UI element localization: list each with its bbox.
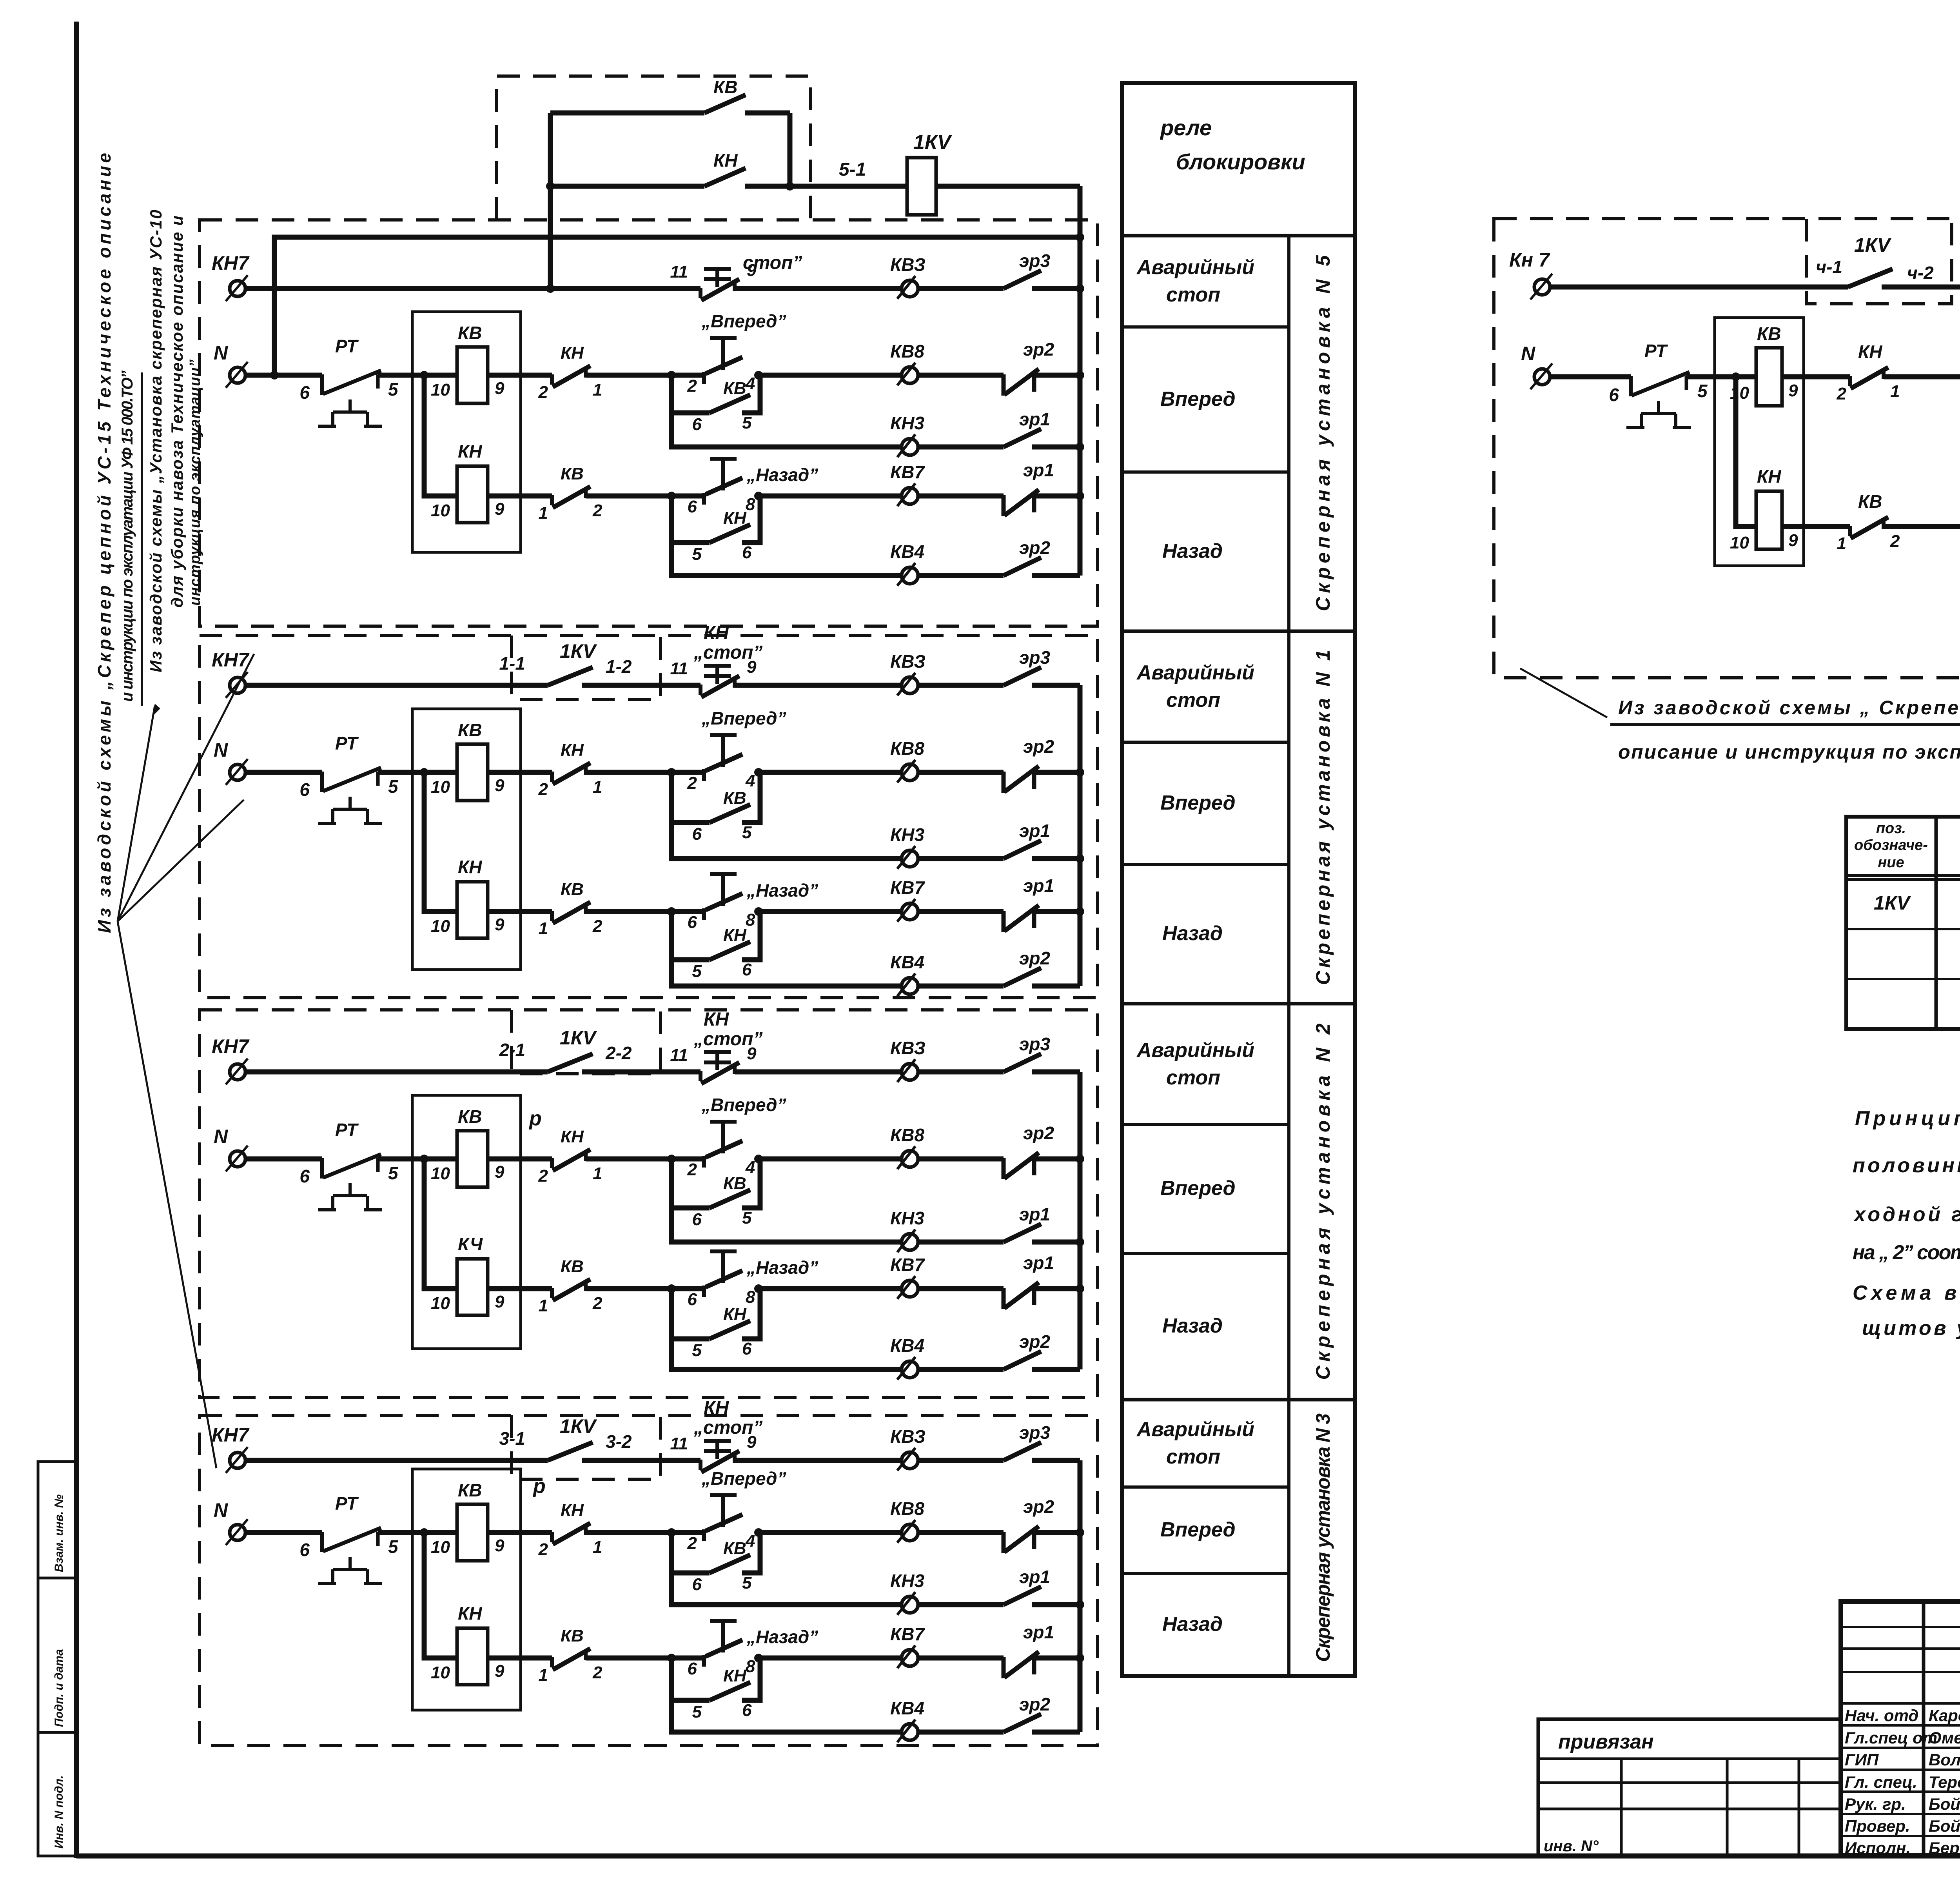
unit N5: contact КН (interlock)	[550, 184, 704, 189]
svg-text:реле: реле	[1160, 115, 1212, 140]
svg-text:Инв. N подл.: Инв. N подл.	[53, 1775, 65, 1849]
svg-text:9: 9	[495, 915, 505, 934]
unit N2: terminal КН7	[212, 1035, 250, 1084]
unit N4: thermal contact РТ	[1626, 372, 1691, 428]
unit N3: thermal contact РТ	[318, 1528, 382, 1583]
unit N1: contact 1KV with wires 1-1/1-2	[245, 683, 548, 688]
svg-text:9: 9	[747, 1044, 757, 1063]
svg-text:3-2: 3-2	[606, 1431, 632, 1452]
svg-text:КН: КН	[704, 1009, 730, 1030]
svg-text:Кн 7: Кн 7	[1509, 249, 1550, 271]
svg-text:КВ4: КВ4	[890, 952, 924, 972]
svg-text:РТ: РТ	[1644, 341, 1668, 361]
svg-text:КВ4: КВ4	[890, 541, 924, 562]
unit N1: self-hold contact КН (Назад)	[671, 912, 710, 960]
unit N1: stop push-button	[704, 666, 731, 684]
svg-text:половины переходной галере: половины переходной галереи . Для другой…	[1853, 1154, 1960, 1177]
unit N5: stop push-button	[704, 269, 731, 287]
unit N3: contact КН (row Вперед)	[552, 1523, 590, 1544]
unit N3: wire relay box branch	[424, 1533, 457, 1658]
svg-text:КВ8: КВ8	[890, 1125, 924, 1145]
unit N3: wire to Назад button	[586, 1656, 704, 1661]
unit N3: contact ЭР1 (row Назад)	[1004, 1652, 1039, 1678]
unit N5: contact ЭР3	[1004, 271, 1041, 289]
svg-text:КН3: КН3	[890, 1571, 924, 1591]
unit N2: wire РТ to relay box	[378, 1157, 457, 1162]
unit N1: wire to Назад button	[586, 909, 704, 914]
unit N1: dashed enclosure	[200, 636, 1098, 998]
unit N1: connector КН3	[897, 846, 918, 869]
svg-text:КВ4: КВ4	[890, 1335, 924, 1356]
svg-text:эр1: эр1	[1019, 821, 1050, 841]
svg-text:6: 6	[299, 779, 310, 800]
unit N1: coil КН	[457, 882, 488, 938]
svg-text:„Вперед”: „Вперед”	[701, 708, 786, 728]
svg-text:2: 2	[687, 1534, 697, 1553]
svg-text:6: 6	[692, 1210, 702, 1229]
svg-text:5: 5	[388, 776, 399, 797]
unit N3: self-hold contact КВ	[671, 1533, 710, 1573]
svg-text:4: 4	[745, 374, 755, 393]
svg-text:Гл.спец от: Гл.спец от	[1845, 1729, 1937, 1747]
unit N3: dashed box around 1KV contact	[512, 1415, 661, 1479]
svg-text:КВ8: КВ8	[890, 341, 924, 361]
svg-text:9: 9	[495, 499, 505, 519]
svg-text:2: 2	[538, 1166, 548, 1186]
unit N2: relay box outline	[412, 1095, 521, 1349]
svg-text:1: 1	[1837, 534, 1846, 553]
svg-text:Бойчук: Бойчук	[1929, 1795, 1960, 1813]
svg-text:5-1: 5-1	[839, 159, 866, 180]
unit N3: dashed enclosure	[200, 1415, 1098, 1745]
unit N2: coil КЧ	[457, 1259, 488, 1315]
svg-text:эр3: эр3	[1019, 1422, 1050, 1443]
unit N3: wire coil to contact КВ	[488, 1656, 552, 1661]
svg-text:Бойчук: Бойчук	[1929, 1817, 1960, 1835]
svg-text:РТ: РТ	[335, 1120, 359, 1140]
unit N3: coil КВ	[457, 1504, 488, 1561]
title block signature stack verticals	[1922, 1602, 1926, 1856]
svg-text:стоп: стоп	[1166, 1445, 1220, 1468]
legend section 3 dividers	[1122, 1398, 1355, 1402]
svg-text:N: N	[214, 1126, 228, 1148]
svg-text:„Назад”: „Назад”	[746, 1627, 818, 1647]
svg-text:КН: КН	[561, 1501, 584, 1520]
unit N4: wire N row	[1550, 374, 1631, 380]
svg-text:КВ7: КВ7	[890, 1624, 925, 1644]
unit N1: self-hold contact КВ	[671, 772, 710, 823]
svg-text:Володина: Володина	[1929, 1750, 1960, 1769]
svg-text:2: 2	[687, 1160, 697, 1179]
svg-text:Омельченко: Омельченко	[1929, 1729, 1960, 1747]
svg-text:стоп: стоп	[1166, 283, 1220, 306]
unit N3: contact ЭР2 (row КВ4)	[1004, 1714, 1041, 1732]
unit N3: wire row КН3	[671, 1573, 901, 1605]
unit N1: contact ЭР2 (row КВ4)	[1004, 968, 1041, 986]
svg-text:КН: КН	[1757, 466, 1781, 487]
svg-text:и инструкции по эксплуатации У: и инструкции по эксплуатации УФ 15 000.Т…	[119, 370, 136, 702]
svg-text:КВ8: КВ8	[890, 1498, 924, 1519]
svg-text:эр2: эр2	[1019, 948, 1050, 968]
svg-text:6: 6	[299, 1166, 310, 1186]
unit N2: push-button Назад	[710, 1251, 737, 1283]
svg-text:1: 1	[539, 1296, 548, 1315]
legend section 2 dividers	[1122, 1002, 1355, 1006]
svg-text:N: N	[214, 342, 228, 364]
unit N5: dashed enclosure	[200, 220, 1098, 626]
svg-text:2: 2	[592, 917, 603, 936]
svg-text:ГИП: ГИП	[1845, 1750, 1879, 1769]
unit N5: wire top return	[274, 186, 1080, 375]
title block name row lines	[1841, 1702, 1960, 1705]
svg-text:КВ4: КВ4	[890, 1698, 924, 1718]
svg-text:Аварийный: Аварийный	[1136, 1039, 1254, 1062]
unit N2: connector КВ8	[897, 1146, 918, 1169]
unit N1: terminal N	[214, 739, 248, 785]
svg-text:9: 9	[1788, 531, 1798, 550]
svg-text:5: 5	[1697, 381, 1708, 401]
svg-text:КН3: КН3	[890, 413, 924, 433]
unit N2: coil КВ	[457, 1131, 488, 1187]
unit N1: connector КВ8	[897, 760, 918, 783]
unit N1: wire РТ to relay box	[378, 770, 457, 775]
svg-text:КВ: КВ	[561, 880, 584, 899]
svg-text:6: 6	[688, 913, 697, 932]
unit N5: connector КН3	[897, 434, 918, 457]
svg-text:КВ: КВ	[723, 379, 746, 398]
svg-text:Из заводской схемы „Скрепер це: Из заводской схемы „Скрепер цепной УС-15…	[94, 153, 114, 933]
svg-text:р: р	[532, 1475, 546, 1498]
svg-text:щитов управления ШУ скреп: щитов управления ШУ скреперами УС-10, УС…	[1862, 1317, 1960, 1340]
svg-text:9: 9	[495, 1162, 505, 1182]
svg-text:КН: КН	[713, 150, 738, 171]
unit N2: thermal contact РТ	[318, 1154, 382, 1210]
unit N2: stop push-button	[704, 1052, 731, 1070]
svg-text:Назад: Назад	[1162, 1315, 1223, 1337]
unit N1: dashed box around 1KV contact	[512, 636, 661, 699]
svg-text:Вперед: Вперед	[1160, 1518, 1236, 1541]
svg-text:1: 1	[539, 503, 548, 523]
unit N5: wire 5-1	[790, 184, 907, 189]
unit N2: wire button to КВ7	[759, 1286, 901, 1291]
svg-text:Аварийный: Аварийный	[1136, 661, 1254, 684]
unit N1: push-button Назад	[710, 874, 737, 906]
unit N4: wire РТ to relay box	[1686, 374, 1756, 380]
svg-text:1КV: 1КV	[1854, 234, 1892, 256]
svg-text:Рук. гр.: Рук. гр.	[1845, 1795, 1906, 1813]
svg-text:1: 1	[539, 1665, 548, 1685]
unit N5: connector КВ8	[897, 363, 918, 385]
svg-text:9: 9	[747, 657, 757, 677]
unit N4: contact КВ (row Назад)	[1782, 524, 1850, 529]
svg-text:10: 10	[431, 777, 450, 797]
binding table frame	[1538, 1719, 1841, 1856]
unit N1: contact ЭР2 (row Вперед)	[1004, 766, 1039, 793]
svg-text:КН: КН	[561, 741, 584, 760]
svg-text:КН: КН	[458, 441, 482, 461]
svg-text:РТ: РТ	[335, 1493, 359, 1514]
svg-text:1КV: 1КV	[560, 1027, 597, 1049]
unit N4: dashed enclosure	[1494, 219, 1960, 678]
svg-text:привязан: привязан	[1558, 1730, 1654, 1753]
unit N3: wire coil КВ to contact КН	[488, 1530, 552, 1535]
unit N5: thermal contact РТ	[318, 370, 382, 426]
unit N1: connector КВЗ	[897, 673, 918, 695]
svg-text:3-1: 3-1	[499, 1428, 525, 1449]
svg-text:КН7: КН7	[212, 649, 250, 671]
leader line to unit 3 block	[118, 921, 216, 1468]
svg-text:5: 5	[742, 1208, 752, 1228]
svg-text:Кардонский: Кардонский	[1929, 1706, 1960, 1725]
svg-text:КВ: КВ	[561, 1626, 584, 1645]
svg-text:КВ: КВ	[723, 1174, 746, 1193]
svg-text:эр1: эр1	[1019, 1204, 1050, 1224]
svg-text:10: 10	[431, 501, 450, 520]
unit N3: contact ЭР1 (row КН3)	[1004, 1587, 1041, 1605]
svg-text:5: 5	[388, 1163, 399, 1183]
svg-text:8: 8	[746, 1287, 755, 1307]
legend table frame	[1122, 83, 1355, 1676]
unit N3: wire РТ to relay box	[378, 1530, 457, 1535]
svg-text:стоп: стоп	[1166, 1066, 1220, 1089]
svg-text:Назад: Назад	[1162, 540, 1223, 563]
unit N4: coil КВ	[1756, 348, 1782, 406]
svg-text:эр1: эр1	[1023, 1622, 1054, 1642]
unit N5: wire N row	[245, 373, 322, 378]
unit N2: wire N row	[245, 1157, 322, 1162]
unit N1: contact ЭР3	[1004, 667, 1041, 685]
svg-text:10: 10	[1730, 533, 1749, 552]
unit N3: wire N row	[245, 1530, 322, 1535]
svg-text:КВ: КВ	[561, 464, 584, 483]
svg-text:КВ: КВ	[458, 323, 482, 343]
legend header cell реле блокировки	[1122, 234, 1355, 238]
binding table row lines	[1538, 1758, 1841, 1760]
unit N2: self-hold contact КВ	[671, 1159, 710, 1208]
svg-text:6: 6	[742, 960, 752, 979]
legend inner vertical	[1289, 234, 1355, 237]
svg-text:КВЗ: КВЗ	[890, 1038, 926, 1058]
unit N1: wire button to КВ8	[759, 770, 901, 775]
svg-text:2: 2	[538, 780, 548, 799]
unit N5: external interlock dashed box	[497, 76, 810, 220]
unit N2: wire coil to contact КВ	[488, 1286, 552, 1291]
svg-text:РТ: РТ	[335, 336, 359, 356]
unit N1: relay box outline	[412, 709, 521, 970]
svg-text:КВ: КВ	[723, 1539, 746, 1558]
unit N1: contact ЭР1 (row Назад)	[1004, 905, 1039, 932]
svg-text:Терещенко: Терещенко	[1929, 1773, 1960, 1791]
svg-text:2: 2	[592, 501, 603, 520]
svg-text:эр2: эр2	[1023, 1123, 1054, 1143]
unit N2: contact ЭР1 (row КН3)	[1004, 1224, 1041, 1242]
leader line to unit 1 block	[118, 654, 254, 921]
unit N2: wire row КВ4	[671, 1339, 901, 1369]
unit N3: connector КВ8	[897, 1520, 918, 1543]
svg-text:РТ: РТ	[335, 733, 359, 754]
unit N5: push-button Назад	[710, 459, 737, 490]
svg-text:ходной галереи схема ан: ходной галереи схема аналогична с замено…	[1853, 1203, 1960, 1226]
svg-text:Вперед: Вперед	[1160, 388, 1236, 410]
unit N4: relay box branch wire	[1736, 377, 1756, 527]
svg-text:2: 2	[592, 1663, 603, 1682]
unit N1: contact КВ (row Назад)	[552, 902, 590, 923]
svg-text:обозначе-: обозначе-	[1854, 837, 1928, 853]
unit N3: contact 1KV with wires 3-1/3-2	[245, 1458, 548, 1463]
unit N2: dashed box around 1KV contact	[512, 1010, 661, 1074]
unit N2: self-hold contact КН (Назад)	[671, 1289, 710, 1339]
svg-text:10: 10	[431, 380, 450, 399]
unit N3: connector КВЗ	[897, 1448, 918, 1471]
svg-text:4: 4	[745, 1158, 755, 1177]
unit N3: connector КВ4	[897, 1720, 918, 1742]
leader line to unit 1 relay box	[118, 800, 244, 921]
svg-text:6: 6	[742, 1339, 752, 1358]
svg-text:КН: КН	[458, 857, 482, 877]
svg-text:КВЗ: КВЗ	[890, 651, 926, 672]
svg-text:Из заводской схемы „ Скр: Из заводской схемы „ Скрепер цепной УС-1…	[1618, 697, 1960, 719]
svg-text:N: N	[1521, 343, 1535, 365]
legend section 5 dividers	[1122, 234, 1355, 238]
svg-text:„Назад”: „Назад”	[746, 465, 818, 485]
svg-text:11: 11	[670, 262, 688, 281]
unit N1: wire relay box branch	[424, 772, 457, 912]
unit N5: wire coil КВ to contact КН	[488, 373, 552, 378]
unit N1: connector КВ4	[897, 973, 918, 996]
svg-text:Из заводской схемы „Установка: Из заводской схемы „Установка скреперная…	[147, 210, 165, 672]
svg-text:„Вперед”: „Вперед”	[701, 1468, 786, 1489]
svg-text:КВ7: КВ7	[890, 462, 925, 482]
unit N2: connector КН3	[897, 1229, 918, 1252]
svg-text:КН: КН	[723, 1666, 747, 1685]
svg-text:КЧ: КЧ	[458, 1234, 483, 1254]
unit N5: coil КВ	[457, 347, 488, 403]
unit N2: contact ЭР1 (row Назад)	[1004, 1282, 1039, 1309]
parts table frame	[1846, 817, 1960, 1029]
unit N1: wire N row	[245, 770, 322, 775]
unit N2: wire relay box branch	[424, 1159, 457, 1289]
svg-text:2: 2	[1890, 532, 1900, 551]
svg-text:1-1: 1-1	[499, 653, 525, 674]
parts table header underline (double)	[1846, 874, 1960, 877]
drawing frame bottom border	[76, 1854, 1960, 1859]
unit N5: wire РТ to relay box	[378, 373, 457, 378]
svg-text:КН: КН	[704, 1398, 730, 1418]
svg-text:КН7: КН7	[212, 1424, 250, 1446]
unit N2: wire button to КВ8	[759, 1157, 901, 1162]
svg-text:ч-2: ч-2	[1907, 263, 1934, 283]
svg-text:КН: КН	[561, 1127, 584, 1146]
svg-text:5: 5	[388, 1536, 399, 1557]
svg-text:8: 8	[746, 495, 755, 514]
unit N5: self-hold contact КВ	[671, 375, 710, 413]
unit N2: contact ЭР3	[1004, 1054, 1041, 1072]
svg-text:Вперед: Вперед	[1160, 1177, 1236, 1200]
caption underline	[1610, 723, 1960, 726]
unit N3: contact ЭР2 (row Вперед)	[1004, 1526, 1039, 1553]
title block blank row lines	[1841, 1626, 1960, 1628]
svg-text:эр2: эр2	[1019, 537, 1050, 558]
svg-text:КН: КН	[561, 343, 584, 363]
svg-text:5: 5	[692, 1341, 702, 1360]
svg-text:9: 9	[495, 1536, 505, 1555]
svg-text:9: 9	[495, 776, 505, 795]
svg-text:4: 4	[745, 771, 755, 790]
svg-text:10: 10	[431, 1164, 450, 1183]
unit N3: stop push-button	[704, 1441, 731, 1459]
unit N5: wire row КН3	[671, 413, 901, 447]
unit N1: wire button to КВ7	[759, 909, 901, 914]
svg-text:Назад: Назад	[1162, 1613, 1223, 1636]
unit N5: wire interlock right leg	[788, 113, 793, 186]
unit N1: wire coil КВ to contact КН	[488, 770, 552, 775]
unit N1: contact ЭР1 (row КН3)	[1004, 841, 1041, 859]
unit N5: self-hold contact КН (Назад)	[671, 496, 710, 543]
svg-text:1КV: 1КV	[560, 1415, 597, 1437]
unit N5: connector КВ7	[897, 483, 918, 506]
svg-text:КВ: КВ	[1858, 491, 1882, 512]
unit N2: right bus wire	[1078, 1072, 1083, 1369]
unit N1: thermal contact РТ	[318, 768, 382, 823]
svg-text:КВ: КВ	[458, 1480, 482, 1500]
unit N5: wire to Назад button	[586, 494, 704, 499]
unit N5: contact КВ (row Назад)	[552, 487, 590, 508]
unit N5: right bus wire	[1078, 186, 1083, 576]
svg-text:КВ: КВ	[1757, 323, 1781, 344]
svg-text:5: 5	[742, 1573, 752, 1592]
svg-text:КН: КН	[723, 1305, 747, 1324]
unit N4: wire to Вперед button	[1884, 374, 1960, 380]
unit N3: connector КН3	[897, 1592, 918, 1615]
svg-text:10: 10	[431, 917, 450, 936]
svg-text:эр1: эр1	[1023, 875, 1054, 896]
unit N3: wire button to КВ7	[759, 1656, 901, 1661]
unit N3: contact ЭР3	[1004, 1442, 1041, 1460]
svg-text:N: N	[214, 739, 228, 761]
svg-text:6: 6	[688, 1659, 697, 1678]
svg-text:10: 10	[1730, 383, 1749, 403]
svg-text:10: 10	[431, 1538, 450, 1557]
svg-text:КН: КН	[1858, 341, 1882, 362]
unit N5: relay box outline	[412, 312, 521, 552]
unit N2: contact ЭР2 (row Вперед)	[1004, 1153, 1039, 1179]
svg-text:6: 6	[688, 497, 697, 516]
unit N3: wire row КВ4	[671, 1700, 901, 1732]
unit N4: terminal N	[1521, 343, 1552, 389]
unit N1: push-button Вперед	[710, 735, 737, 767]
unit N3: self-hold contact КН (Назад)	[671, 1658, 710, 1700]
svg-text:эр3: эр3	[1019, 251, 1050, 271]
svg-text:блокировки: блокировки	[1176, 149, 1305, 174]
parts table column поз.обозначение	[1935, 817, 1938, 1029]
svg-text:Назад: Назад	[1162, 922, 1223, 945]
unit N5: wire relay box branch	[424, 375, 457, 496]
unit N5: wire interlock left leg	[548, 113, 553, 289]
legend section 1 dividers	[1122, 630, 1355, 633]
unit N5: wire phase row	[245, 286, 701, 291]
unit N3: connector КВ7	[897, 1645, 918, 1668]
svg-text:6: 6	[692, 1575, 702, 1594]
svg-text:эр1: эр1	[1019, 409, 1050, 429]
svg-text:6: 6	[299, 382, 310, 403]
svg-text:стоп: стоп	[1166, 689, 1220, 712]
unit N1: wire coil to contact КВ	[488, 909, 552, 914]
svg-text:эр2: эр2	[1019, 1694, 1050, 1714]
svg-text:11: 11	[670, 1046, 688, 1065]
unit N5: contact ЭР1 (row КН3)	[1004, 429, 1041, 447]
drawing frame left border	[74, 22, 79, 1858]
svg-text:инв. N°: инв. N°	[1544, 1838, 1599, 1855]
